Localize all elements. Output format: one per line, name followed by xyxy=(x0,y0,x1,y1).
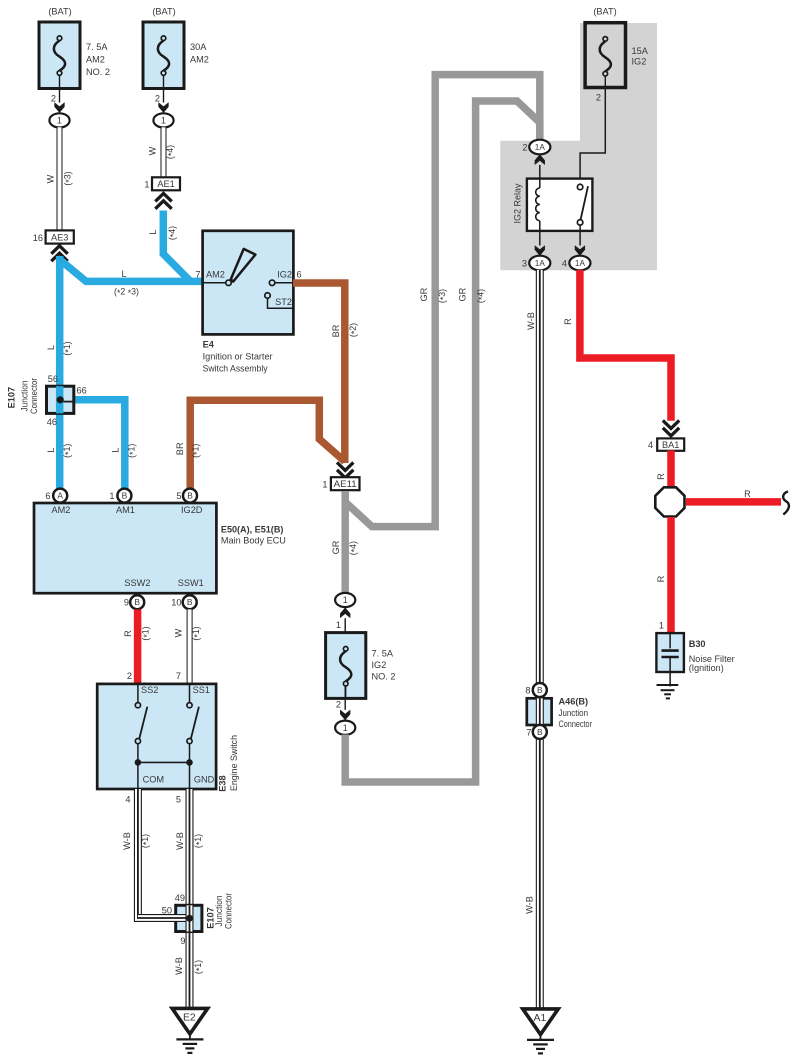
wire W (*3) fuse1 to AE3 xyxy=(46,127,75,230)
svg-text:R: R xyxy=(656,473,666,480)
wire R node to right (break) xyxy=(686,489,789,514)
svg-text:SS1: SS1 xyxy=(193,685,210,695)
junction connector A46(B) xyxy=(525,683,592,739)
svg-text:9: 9 xyxy=(180,936,185,946)
wire W-B relay pin3 to ground A1 xyxy=(525,270,540,1009)
svg-text:49: 49 xyxy=(175,893,185,903)
svg-text:AE11: AE11 xyxy=(334,479,357,489)
svg-text:7: 7 xyxy=(176,671,181,681)
svg-text:2: 2 xyxy=(522,143,527,153)
svg-text:L: L xyxy=(46,345,56,350)
wire R BA1 to node xyxy=(656,450,671,487)
svg-text:GR: GR xyxy=(331,540,341,554)
svg-text:(*4): (*4) xyxy=(348,541,360,555)
svg-text:(Ignition): (Ignition) xyxy=(689,663,724,673)
svg-text:B: B xyxy=(537,685,543,695)
svg-text:GND: GND xyxy=(194,774,215,784)
svg-text:7. 5A: 7. 5A xyxy=(86,42,108,52)
svg-text:AM2: AM2 xyxy=(190,55,209,65)
connector AE3 xyxy=(33,230,74,261)
svg-text:15A: 15A xyxy=(632,46,649,56)
svg-text:5: 5 xyxy=(176,795,181,805)
svg-text:(BAT): (BAT) xyxy=(593,7,616,17)
node pin1 oval above fuse xyxy=(335,593,355,646)
ground below B30 xyxy=(657,685,679,698)
svg-text:(*1): (*1) xyxy=(62,341,74,355)
svg-text:(*1): (*1) xyxy=(140,834,152,848)
svg-text:E107: E107 xyxy=(7,387,17,408)
svg-text:(*1): (*1) xyxy=(193,960,205,974)
svg-text:B: B xyxy=(187,597,193,607)
fuse 30A AM2 xyxy=(143,6,209,127)
connector BA1 xyxy=(648,420,684,450)
svg-text:Engine Switch: Engine Switch xyxy=(229,735,239,791)
svg-text:BR: BR xyxy=(175,442,185,455)
svg-text:Junction: Junction xyxy=(20,381,30,412)
label L (*2 *3) xyxy=(114,269,139,298)
svg-text:W-B: W-B xyxy=(174,957,184,975)
svg-text:L: L xyxy=(111,447,121,452)
svg-text:E4: E4 xyxy=(203,339,215,349)
wire R node to B30 xyxy=(656,517,671,634)
svg-text:NO. 2: NO. 2 xyxy=(86,67,110,77)
svg-text:ST2: ST2 xyxy=(275,297,292,307)
svg-text:(*4): (*4) xyxy=(475,289,487,303)
svg-text:2: 2 xyxy=(155,93,160,103)
svg-text:COM: COM xyxy=(143,774,164,784)
svg-text:46: 46 xyxy=(47,417,57,427)
wire fuse 15A to relay switch xyxy=(580,88,605,179)
wire R (*1) SSW2 to E38 SS2 xyxy=(123,609,152,684)
svg-text:(*4): (*4) xyxy=(165,145,177,159)
svg-text:AM2: AM2 xyxy=(52,505,71,515)
relay IG2 xyxy=(513,140,593,271)
svg-text:2: 2 xyxy=(127,671,132,681)
connector AE11 xyxy=(322,462,359,490)
svg-text:(*2): (*2) xyxy=(348,323,360,337)
svg-text:1: 1 xyxy=(343,723,348,733)
engine switch E38 xyxy=(97,671,239,805)
svg-text:GR: GR xyxy=(419,287,429,301)
svg-text:SSW2: SSW2 xyxy=(124,578,150,588)
svg-text:1: 1 xyxy=(109,491,114,501)
junction connector E107 (top) xyxy=(7,374,87,427)
ignition switch E4 xyxy=(195,231,301,374)
svg-text:(*4): (*4) xyxy=(167,226,179,240)
svg-text:1A: 1A xyxy=(535,259,546,268)
svg-text:1: 1 xyxy=(659,621,664,631)
wire GR (*4) fuse to relay pin2 xyxy=(345,101,540,782)
svg-text:B: B xyxy=(187,491,193,501)
svg-text:SSW1: SSW1 xyxy=(178,578,204,588)
wire BR (*1) to ECU IG2D xyxy=(175,400,345,489)
svg-text:W: W xyxy=(46,174,56,183)
junction connector E107 (bottom) xyxy=(138,893,234,946)
svg-text:1: 1 xyxy=(343,595,348,605)
noise filter B30 xyxy=(656,633,734,686)
svg-text:R: R xyxy=(744,489,751,499)
svg-text:IG2: IG2 xyxy=(372,660,387,670)
svg-text:W-B: W-B xyxy=(175,832,185,850)
svg-text:(*1): (*1) xyxy=(62,444,74,458)
svg-text:(*3): (*3) xyxy=(63,171,75,185)
fuse 7.5A AM2 NO.2 xyxy=(39,6,110,127)
svg-text:7. 5A: 7. 5A xyxy=(372,649,394,659)
svg-text:(*1): (*1) xyxy=(127,444,139,458)
svg-text:50: 50 xyxy=(162,905,172,915)
svg-text:(*1): (*1) xyxy=(140,626,152,640)
wire GR (*3) AE11 branch to relay pin2 xyxy=(345,75,540,527)
node junction octagon xyxy=(655,487,684,516)
svg-text:AE3: AE3 xyxy=(51,232,68,242)
svg-text:B: B xyxy=(134,597,140,607)
svg-text:3: 3 xyxy=(522,259,527,269)
svg-text:W-B: W-B xyxy=(526,312,536,330)
svg-text:L: L xyxy=(46,447,56,452)
svg-text:2: 2 xyxy=(51,93,56,103)
svg-text:7: 7 xyxy=(526,728,531,738)
svg-text:6: 6 xyxy=(45,491,50,501)
svg-text:7: 7 xyxy=(195,270,200,280)
svg-text:E2: E2 xyxy=(183,1013,196,1024)
svg-text:A46(B): A46(B) xyxy=(559,697,589,707)
svg-text:AE1: AE1 xyxy=(157,179,174,189)
wire L E107 branch to ECU AM1 xyxy=(73,400,138,490)
svg-text:AM2: AM2 xyxy=(86,55,105,65)
svg-text:10: 10 xyxy=(171,598,181,608)
svg-text:2: 2 xyxy=(596,92,601,102)
connector AE1 xyxy=(144,177,180,209)
svg-text:(*1): (*1) xyxy=(191,444,203,458)
svg-text:W-B: W-B xyxy=(122,832,132,850)
svg-text:BR: BR xyxy=(331,324,341,337)
svg-text:Main Body ECU: Main Body ECU xyxy=(221,535,286,545)
svg-text:L: L xyxy=(121,269,126,279)
svg-text:1: 1 xyxy=(57,116,62,126)
svg-text:A1: A1 xyxy=(534,1013,547,1024)
svg-text:2: 2 xyxy=(336,700,341,710)
svg-text:Junction: Junction xyxy=(559,708,589,718)
svg-text:6: 6 xyxy=(297,270,302,280)
fuse 15A IG2 xyxy=(585,7,649,103)
svg-text:IG2D: IG2D xyxy=(181,505,203,515)
wire L E107 to ECU AM2 xyxy=(46,341,74,489)
svg-text:B: B xyxy=(122,491,128,501)
ground E2 xyxy=(172,1008,208,1053)
svg-text:(*1): (*1) xyxy=(193,834,205,848)
svg-text:AM2: AM2 xyxy=(206,269,225,279)
svg-text:4: 4 xyxy=(648,440,653,450)
svg-text:IG2 Relay: IG2 Relay xyxy=(513,183,523,223)
svg-text:W: W xyxy=(174,628,184,637)
svg-text:(*1): (*1) xyxy=(191,626,203,640)
svg-text:9: 9 xyxy=(124,598,129,608)
wire W (*4) fuse2 to AE1 xyxy=(148,127,177,177)
relay block shaded background xyxy=(500,23,657,270)
ground A1 xyxy=(523,1009,559,1054)
svg-text:Switch Assembly: Switch Assembly xyxy=(203,363,268,373)
svg-text:IG2: IG2 xyxy=(277,269,292,279)
svg-text:E38: E38 xyxy=(218,775,228,791)
svg-text:4: 4 xyxy=(125,795,130,805)
svg-text:Ignition or Starter: Ignition or Starter xyxy=(203,351,273,361)
svg-text:(*3): (*3) xyxy=(437,289,449,303)
svg-text:Connector: Connector xyxy=(559,719,593,729)
svg-text:W: W xyxy=(148,146,158,155)
svg-text:NO. 2: NO. 2 xyxy=(372,672,396,682)
svg-text:4: 4 xyxy=(562,259,567,269)
svg-text:BA1: BA1 xyxy=(662,440,679,450)
wire W-B (*1) E38 GND down to ground E2 xyxy=(174,789,204,1009)
svg-text:Connector: Connector xyxy=(29,378,39,414)
main body ECU E50(A) E51(B) xyxy=(34,489,286,610)
svg-text:66: 66 xyxy=(77,385,87,395)
svg-text:(BAT): (BAT) xyxy=(48,6,71,16)
svg-text:W-B: W-B xyxy=(525,896,535,914)
node pin2 oval below fuse xyxy=(335,686,355,735)
svg-text:1A: 1A xyxy=(535,143,546,152)
svg-text:1: 1 xyxy=(336,620,341,630)
svg-text:L: L xyxy=(148,229,158,234)
svg-text:16: 16 xyxy=(33,233,43,243)
svg-text:A: A xyxy=(57,491,63,501)
fuse 7.5A IG2 NO.2 xyxy=(326,633,396,699)
svg-text:56: 56 xyxy=(48,374,58,384)
svg-text:(BAT): (BAT) xyxy=(152,6,175,16)
svg-text:B30: B30 xyxy=(689,639,706,649)
svg-text:30A: 30A xyxy=(190,42,207,52)
svg-text:1: 1 xyxy=(322,479,327,489)
svg-text:SS2: SS2 xyxy=(141,685,158,695)
svg-text:E50(A), E51(B): E50(A), E51(B) xyxy=(221,524,284,534)
wire L AE1 branch xyxy=(148,211,191,282)
svg-text:1A: 1A xyxy=(575,259,586,268)
svg-text:IG2: IG2 xyxy=(632,56,647,66)
svg-text:Junction: Junction xyxy=(214,896,224,927)
svg-text:1: 1 xyxy=(144,180,149,190)
svg-text:AM1: AM1 xyxy=(116,505,135,515)
wire L AE3 down to junction E107 xyxy=(56,256,64,388)
svg-text:(*2 *3): (*2 *3) xyxy=(114,287,139,299)
wire BR (*2) E4 IG2 to AE11 xyxy=(293,283,359,463)
svg-text:5: 5 xyxy=(176,491,181,501)
wire GR (*4) AE11 to fuse IG2 NO.2 xyxy=(331,491,360,593)
svg-text:R: R xyxy=(563,318,573,325)
svg-text:R: R xyxy=(123,630,133,637)
svg-text:GR: GR xyxy=(457,287,467,301)
svg-text:Connector: Connector xyxy=(223,893,233,929)
wire L branch AE3 to E4 AM2 xyxy=(60,260,203,282)
svg-text:8: 8 xyxy=(525,685,530,695)
svg-text:B: B xyxy=(537,727,543,737)
wire R relay pin4 to BA1 xyxy=(563,270,671,421)
svg-text:1: 1 xyxy=(161,116,166,126)
wire W (*1) SSW1 to E38 SS1 xyxy=(174,609,203,684)
svg-text:R: R xyxy=(656,575,666,582)
wire W-B (*1) E38 COM to E107 pin50 xyxy=(122,789,188,918)
